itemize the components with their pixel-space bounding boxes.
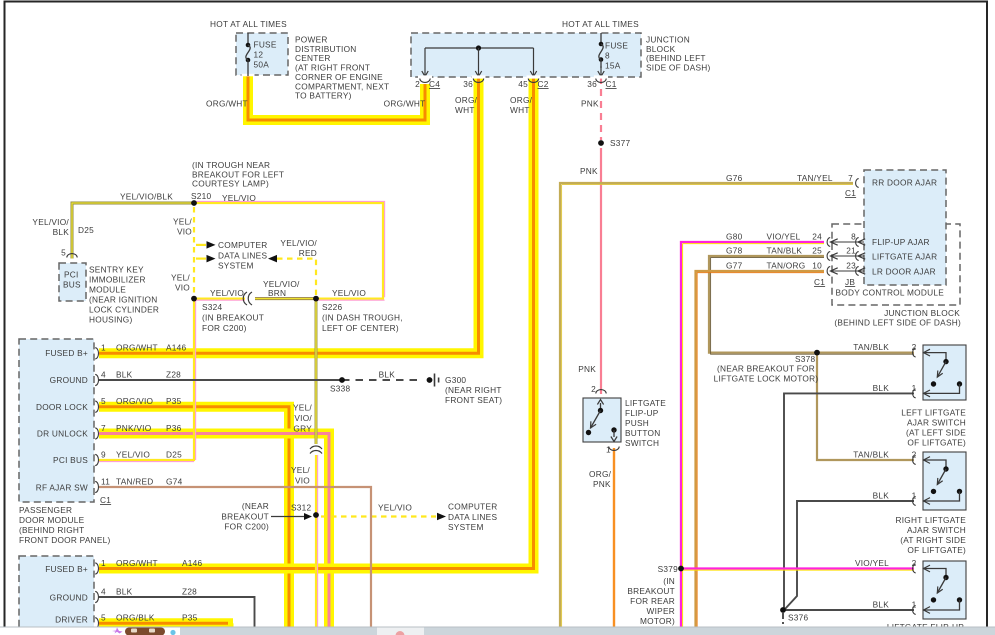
svg-text:HOUSING): HOUSING) [89, 315, 133, 325]
svg-text:LR DOOR AJAR: LR DOOR AJAR [872, 267, 936, 277]
svg-text:S312: S312 [291, 503, 312, 513]
svg-text:C1: C1 [100, 495, 111, 505]
svg-text:2: 2 [591, 384, 596, 394]
svg-text:IMMOBILIZER: IMMOBILIZER [89, 275, 146, 285]
svg-text:BLK: BLK [53, 227, 70, 237]
svg-text:BREAKOUT: BREAKOUT [627, 586, 675, 596]
svg-text:LEFT LIFTGATE: LEFT LIFTGATE [901, 408, 966, 418]
svg-text:PNK: PNK [581, 99, 599, 109]
svg-text:S376: S376 [788, 613, 809, 623]
svg-text:5: 5 [101, 396, 106, 406]
svg-text:5: 5 [101, 613, 106, 623]
svg-text:FUSE: FUSE [254, 40, 277, 50]
svg-text:15A: 15A [605, 61, 621, 71]
svg-text:ORG/: ORG/ [589, 469, 612, 479]
svg-text:TAN/BLK: TAN/BLK [767, 246, 803, 256]
svg-text:BUS: BUS [63, 280, 81, 290]
svg-text:PCI BUS: PCI BUS [53, 455, 88, 465]
svg-text:TAN/RED: TAN/RED [116, 477, 154, 487]
svg-text:(IN DASH TROUGH,: (IN DASH TROUGH, [322, 313, 403, 323]
svg-text:FUSED B+: FUSED B+ [45, 564, 88, 574]
svg-text:2: 2 [912, 450, 917, 460]
svg-text:TAN/ORG: TAN/ORG [767, 261, 806, 271]
svg-text:LEFT OF CENTER): LEFT OF CENTER) [322, 323, 399, 333]
svg-text:ORG/WHT: ORG/WHT [206, 99, 248, 109]
svg-text:LIFTGATE: LIFTGATE [625, 398, 666, 408]
svg-text:RR DOOR AJAR: RR DOOR AJAR [872, 178, 937, 188]
svg-text:FLIP-UP AJAR: FLIP-UP AJAR [872, 237, 930, 247]
svg-text:G77: G77 [726, 261, 743, 271]
svg-text:DOOR MODULE: DOOR MODULE [19, 515, 85, 525]
svg-text:P35: P35 [182, 613, 198, 623]
svg-text:SIDE OF DASH): SIDE OF DASH) [646, 63, 711, 73]
svg-text:VIO/YEL: VIO/YEL [855, 558, 889, 568]
svg-text:7: 7 [848, 173, 853, 183]
svg-text:MOTOR): MOTOR) [640, 616, 675, 626]
svg-text:24: 24 [812, 232, 822, 242]
svg-text:VIO: VIO [175, 283, 190, 293]
svg-text:ORG/: ORG/ [510, 95, 533, 105]
svg-text:S210: S210 [191, 191, 212, 201]
svg-text:S379: S379 [658, 564, 679, 574]
svg-text:DOOR LOCK: DOOR LOCK [36, 402, 88, 412]
svg-text:PUSH: PUSH [625, 418, 649, 428]
svg-text:VIO: VIO [295, 476, 310, 486]
svg-text:ORG/VIO: ORG/VIO [116, 396, 154, 406]
svg-text:YEL/: YEL/ [293, 403, 312, 413]
svg-text:(NEAR IGNITION: (NEAR IGNITION [89, 295, 158, 305]
svg-text:(BEHIND LEFT SIDE OF DASH): (BEHIND LEFT SIDE OF DASH) [834, 318, 961, 328]
svg-text:WHT: WHT [510, 105, 530, 115]
svg-text:GROUND: GROUND [50, 593, 88, 603]
svg-text:G300: G300 [445, 375, 466, 385]
svg-text:JB: JB [845, 277, 855, 287]
svg-text:C1: C1 [845, 188, 856, 198]
svg-text:AJAR SWITCH: AJAR SWITCH [907, 525, 966, 535]
svg-text:S378: S378 [795, 354, 816, 364]
svg-text:8: 8 [605, 51, 610, 61]
svg-text:2: 2 [415, 79, 420, 89]
svg-text:FRONT DOOR PANEL): FRONT DOOR PANEL) [19, 535, 111, 545]
svg-text:(AT LEFT SIDE: (AT LEFT SIDE [906, 428, 966, 438]
svg-text:TAN/BLK: TAN/BLK [853, 450, 889, 460]
svg-text:FUSED B+: FUSED B+ [45, 348, 88, 358]
svg-text:1: 1 [912, 491, 917, 501]
svg-text:23: 23 [846, 261, 856, 271]
svg-text:(AT RIGHT SIDE: (AT RIGHT SIDE [900, 535, 966, 545]
svg-text:YEL/VIO/: YEL/VIO/ [280, 238, 317, 248]
svg-text:S324: S324 [202, 302, 223, 312]
svg-text:PNK: PNK [580, 166, 598, 176]
svg-text:1: 1 [606, 445, 611, 455]
svg-text:YEL/: YEL/ [291, 465, 310, 475]
svg-text:G78: G78 [726, 246, 743, 256]
svg-text:S226: S226 [322, 302, 343, 312]
svg-text:1: 1 [912, 600, 917, 610]
svg-text:VIO/: VIO/ [294, 413, 312, 423]
svg-text:A146: A146 [182, 558, 203, 568]
svg-text:PNK: PNK [593, 479, 611, 489]
svg-text:D25: D25 [78, 225, 94, 235]
svg-text:DATA LINES: DATA LINES [448, 512, 497, 522]
svg-text:FUSE: FUSE [605, 41, 628, 51]
svg-text:FLIP-UP: FLIP-UP [625, 408, 659, 418]
svg-text:1: 1 [101, 343, 106, 353]
svg-text:ORG/WHT: ORG/WHT [116, 558, 158, 568]
svg-text:(IN BREAKOUT: (IN BREAKOUT [202, 313, 264, 323]
svg-text:BLK: BLK [116, 370, 133, 380]
svg-text:C2: C2 [538, 79, 549, 89]
svg-text:11: 11 [101, 477, 110, 487]
svg-text:BLK: BLK [873, 600, 890, 610]
svg-text:PNK: PNK [578, 364, 596, 374]
svg-text:2: 2 [912, 558, 917, 568]
svg-text:BLK: BLK [379, 370, 396, 380]
svg-text:A146: A146 [166, 343, 187, 353]
svg-text:FOR C200): FOR C200) [202, 323, 247, 333]
svg-text:VIO: VIO [177, 227, 192, 237]
svg-text:5: 5 [61, 248, 66, 258]
svg-text:50A: 50A [254, 60, 270, 70]
svg-text:VIO/YEL: VIO/YEL [767, 232, 801, 242]
svg-text:D25: D25 [166, 450, 182, 460]
svg-text:(IN: (IN [663, 576, 675, 586]
svg-text:10: 10 [812, 261, 822, 271]
svg-text:4: 4 [101, 370, 106, 380]
svg-text:BRN: BRN [268, 288, 286, 298]
svg-text:YEL/VIO: YEL/VIO [222, 193, 256, 203]
svg-text:1: 1 [912, 383, 917, 393]
svg-text:SYSTEM: SYSTEM [448, 522, 484, 532]
svg-text:BREAKOUT: BREAKOUT [221, 511, 269, 521]
svg-text:S377: S377 [610, 138, 631, 148]
svg-text:25: 25 [812, 246, 822, 256]
svg-text:12: 12 [254, 50, 264, 60]
svg-text:BODY CONTROL MODULE: BODY CONTROL MODULE [836, 288, 945, 298]
svg-text:LOCK CYLINDER: LOCK CYLINDER [89, 305, 159, 315]
svg-text:SENTRY KEY: SENTRY KEY [89, 265, 144, 275]
svg-text:C1: C1 [606, 79, 617, 89]
svg-text:OF LIFTGATE): OF LIFTGATE) [907, 545, 966, 555]
svg-text:RIGHT LIFTGATE: RIGHT LIFTGATE [896, 515, 967, 525]
svg-text:LIFTGATE AJAR: LIFTGATE AJAR [872, 252, 937, 262]
svg-text:TO BATTERY): TO BATTERY) [295, 91, 352, 101]
svg-text:PNK/VIO: PNK/VIO [116, 423, 152, 433]
svg-text:G80: G80 [726, 232, 743, 242]
svg-text:36: 36 [587, 79, 597, 89]
svg-text:ORG/BLK: ORG/BLK [116, 613, 155, 623]
svg-text:COURTESY LAMP): COURTESY LAMP) [192, 179, 269, 189]
svg-text:9: 9 [101, 450, 106, 460]
svg-text:(BEHIND RIGHT: (BEHIND RIGHT [19, 525, 84, 535]
svg-text:DRIVER: DRIVER [55, 615, 88, 625]
svg-text:YEL/: YEL/ [173, 217, 192, 227]
svg-text:YEL/VIO/BLK: YEL/VIO/BLK [120, 192, 173, 202]
svg-text:OF LIFTGATE): OF LIFTGATE) [907, 438, 966, 448]
svg-text:BLK: BLK [873, 491, 890, 501]
svg-text:21: 21 [846, 246, 856, 256]
svg-text:P36: P36 [166, 423, 182, 433]
svg-text:GROUND: GROUND [50, 375, 88, 385]
svg-text:MODULE: MODULE [89, 285, 126, 295]
svg-text:Z28: Z28 [182, 587, 197, 597]
svg-text:COMPUTER: COMPUTER [448, 502, 497, 512]
svg-text:PASSENGER: PASSENGER [19, 505, 72, 515]
svg-text:RF AJAR SW: RF AJAR SW [36, 483, 88, 493]
svg-text:FOR REAR: FOR REAR [630, 596, 675, 606]
svg-text:P35: P35 [166, 396, 182, 406]
svg-text:JUNCTION BLOCK: JUNCTION BLOCK [884, 308, 960, 318]
svg-text:C4: C4 [429, 79, 440, 89]
svg-text:45: 45 [518, 79, 528, 89]
svg-text:DATA LINES: DATA LINES [218, 250, 267, 260]
svg-text:SWITCH: SWITCH [625, 438, 659, 448]
svg-text:BLK: BLK [116, 587, 133, 597]
svg-text:COMPUTER: COMPUTER [218, 240, 267, 250]
svg-text:36: 36 [463, 79, 473, 89]
svg-text:AJAR SWITCH: AJAR SWITCH [907, 418, 966, 428]
svg-text:G76: G76 [726, 173, 743, 183]
svg-text:1: 1 [101, 558, 106, 568]
svg-text:8: 8 [851, 232, 856, 242]
svg-text:Z28: Z28 [166, 370, 181, 380]
svg-text:YEL/VIO: YEL/VIO [378, 503, 412, 513]
svg-text:ORG/WHT: ORG/WHT [384, 99, 426, 109]
svg-text:HOT AT ALL TIMES: HOT AT ALL TIMES [562, 19, 639, 29]
svg-text:BLK: BLK [873, 383, 890, 393]
svg-text:YEL/VIO: YEL/VIO [332, 288, 366, 298]
svg-text:YEL/VIO/: YEL/VIO/ [32, 217, 69, 227]
svg-text:DR UNLOCK: DR UNLOCK [37, 429, 88, 439]
svg-text:YEL/: YEL/ [171, 273, 190, 283]
svg-text:GRY: GRY [293, 424, 312, 434]
svg-text:(NEAR: (NEAR [242, 501, 269, 511]
svg-text:7: 7 [101, 423, 106, 433]
svg-text:YEL/VIO: YEL/VIO [210, 288, 244, 298]
svg-text:S338: S338 [330, 384, 351, 394]
svg-text:YEL/VIO: YEL/VIO [116, 450, 150, 460]
svg-text:G74: G74 [166, 477, 183, 487]
svg-text:ORG/: ORG/ [455, 95, 478, 105]
svg-text:BUTTON: BUTTON [625, 428, 660, 438]
svg-text:PCI: PCI [64, 270, 79, 280]
svg-text:WIPER: WIPER [647, 606, 675, 616]
svg-text:HOT AT ALL TIMES: HOT AT ALL TIMES [210, 19, 287, 29]
svg-text:SYSTEM: SYSTEM [218, 261, 254, 271]
svg-text:(NEAR RIGHT: (NEAR RIGHT [445, 385, 502, 395]
svg-text:C1: C1 [814, 277, 825, 287]
svg-text:LIFTGATE LOCK MOTOR): LIFTGATE LOCK MOTOR) [714, 374, 819, 384]
svg-text:FRONT SEAT): FRONT SEAT) [445, 395, 502, 405]
svg-text:ORG/WHT: ORG/WHT [116, 343, 158, 353]
svg-text:TAN/YEL: TAN/YEL [797, 173, 833, 183]
svg-text:4: 4 [101, 587, 106, 597]
svg-text:WHT: WHT [455, 105, 475, 115]
svg-text:RED: RED [299, 248, 317, 258]
svg-text:TAN/BLK: TAN/BLK [853, 342, 889, 352]
svg-text:(NEAR BREAKOUT FOR: (NEAR BREAKOUT FOR [717, 364, 815, 374]
svg-text:FOR C200): FOR C200) [224, 522, 269, 532]
svg-text:2: 2 [912, 342, 917, 352]
